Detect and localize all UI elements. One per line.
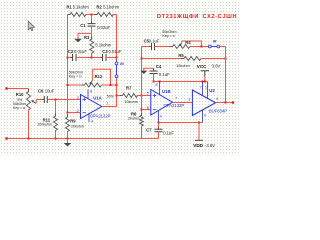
wire C4 bottom lead (153, 74, 155, 82)
junction right vertical at output (225, 102, 227, 104)
svg-text:5.1kohm: 5.1kohm (73, 5, 89, 10)
pin 8 stub U1A (87, 90, 89, 99)
junction VCC rail at VCC symbol (204, 81, 206, 83)
svg-text:20kohm: 20kohm (71, 125, 84, 129)
svg-text:C6: C6 (38, 89, 44, 94)
junction R3 bottom at C2C3 mid (91, 57, 93, 59)
junction right leg at C3 row (116, 57, 118, 59)
svg-text:3: 3 (77, 96, 79, 100)
wire R10 wiper to C6 (36, 99, 44, 101)
wire right leg down to IN port (116, 58, 118, 60)
svg-text:50%: 50% (107, 95, 115, 99)
svg-text:0.02uF: 0.02uF (97, 25, 110, 30)
svg-text:12kohm: 12kohm (176, 64, 190, 68)
svg-text:0.1uF: 0.1uF (159, 72, 170, 77)
wire R10 wiper stub (35, 100, 37, 104)
resistor R6 (140, 113, 144, 129)
svg-text:5.1kohm: 5.1kohm (95, 43, 111, 48)
capacitor C6 (44, 96, 47, 103)
wire rail from feedback vertical (142, 58, 185, 60)
wire C2 to mid junction (76, 57, 103, 59)
wire twin-T left leg vertical (67, 15, 69, 113)
resistor R9 bottom lead (67, 132, 69, 139)
wire right vertical lower (225, 59, 227, 103)
svg-text:4: 4 (160, 114, 162, 118)
svg-text:0.01uF: 0.01uF (74, 49, 87, 54)
node left input end (5, 87, 7, 89)
pin 4 stub U1A (88, 113, 90, 122)
junction output node at R7 row (116, 95, 118, 97)
svg-text:4: 4 (204, 114, 206, 118)
svg-text:0.01uF: 0.01uF (109, 49, 122, 54)
wire negative supply rail (159, 122, 203, 124)
svg-text:7: 7 (200, 85, 202, 89)
resistor R5 (182, 57, 204, 61)
junction feedback vertical at rail (141, 58, 143, 60)
ground arrow at C1 node (74, 39, 82, 42)
pin 7 stub U2 (202, 82, 204, 96)
wire connector to right vertical (220, 46, 226, 48)
wire twin-T right leg vertical (116, 15, 118, 58)
junction VCC rail at U2 pin7 (202, 81, 204, 83)
capacitor C4 (150, 71, 158, 74)
wire C7 bottom lead (158, 132, 160, 139)
wire left input to R10 top (7, 88, 29, 90)
svg-text:VDD: VDD (193, 143, 203, 148)
junction V- rail at C7 (158, 122, 160, 124)
svg-text:R9: R9 (70, 119, 76, 124)
wire R4 wiper loop (182, 41, 202, 47)
svg-text:10kohm: 10kohm (124, 100, 138, 104)
resistor R1 (68, 13, 89, 17)
resistor R2 (95, 13, 117, 17)
svg-text:DT231ЖЩФИ CX2-CJШН: DT231ЖЩФИ CX2-CJШН (157, 14, 237, 20)
junction R12 wiper tie (110, 84, 112, 86)
wire C6 to U1A pin3 (47, 99, 80, 101)
svg-text:OPA2132P: OPA2132P (90, 114, 111, 119)
svg-text:C7: C7 (146, 127, 152, 132)
junction ground rail at R10 (28, 138, 30, 140)
resistor R6 bottom lead (141, 126, 143, 139)
svg-text:R10: R10 (16, 92, 24, 97)
wire ground stub (67, 139, 69, 144)
wire U1A pin2 from left leg (68, 112, 81, 114)
minus sign U1A inverting input (83, 112, 87, 114)
junction R4 wiper tie (200, 46, 202, 48)
ground arrow at C4 (140, 71, 147, 74)
svg-text:7: 7 (175, 97, 177, 101)
svg-text:3: 3 (188, 97, 190, 101)
junction ground rail at R11 (55, 138, 57, 140)
resistor R7 (120, 94, 140, 98)
wire C5 corner horizontal (142, 46, 150, 48)
svg-text:1: 1 (205, 85, 207, 89)
power symbol VCC (201, 71, 209, 77)
junction output node at R12 wire (116, 84, 118, 86)
svg-text:-3.6V: -3.6V (205, 143, 215, 148)
junction twin-T left leg at R12 wire (67, 84, 69, 86)
pin 4 stub U2 (202, 109, 204, 122)
plus sign U1B noninverting input (153, 94, 157, 98)
plus sign U1A noninverting input (83, 97, 87, 101)
junction feedback vertical at R7 (141, 95, 143, 97)
junction VCC rail at U1B pin8 (159, 81, 161, 83)
capacitor C2 (73, 54, 77, 61)
wire right vertical upper (225, 47, 227, 59)
svg-text:4: 4 (91, 120, 93, 124)
wire U1B output to U2 (173, 102, 193, 104)
wire R3 bottom lead (91, 53, 93, 58)
svg-text:R5: R5 (178, 53, 184, 58)
potentiometer R4 wiper arrow (180, 43, 182, 45)
potentiometer R10 body (27, 89, 31, 112)
wire C7 top lead (158, 123, 160, 130)
wire between IN connectors (116, 65, 118, 75)
wire left leg to R12 (68, 84, 85, 86)
svg-text:10uF: 10uF (45, 89, 55, 94)
wire feedback vertical upper (141, 47, 143, 96)
wire R7 to feedback vertical (138, 95, 142, 97)
svg-text:100kohm: 100kohm (37, 123, 52, 127)
wire top rail left segment (68, 14, 71, 16)
svg-text:0.1uF: 0.1uF (149, 39, 160, 44)
wire R12 wiper loop (93, 69, 111, 85)
wire R5 to right vertical (201, 58, 226, 60)
buffer U2 BUF634P (192, 90, 215, 116)
wire between right connectors (212, 46, 217, 48)
on-page connector right pair left circle (208, 45, 211, 48)
resistor R9 top lead (67, 113, 69, 118)
resistor R9 (66, 115, 70, 135)
svg-text:IN: IN (120, 62, 124, 66)
svg-text:C3: C3 (102, 49, 108, 54)
wire C1 bottom lead (91, 26, 93, 33)
svg-text:U2: U2 (209, 88, 215, 93)
potentiometer R12 body (82, 83, 104, 87)
potentiometer R12 wiper arrow (90, 80, 92, 83)
minus sign U1B inverting input (153, 109, 157, 111)
wire VCC symbol to rail (204, 77, 206, 82)
wire C1 node to ground (78, 33, 92, 38)
wire R10 top lead (28, 89, 30, 92)
capacitor C3 (103, 54, 107, 61)
svg-text:C4: C4 (156, 64, 162, 69)
op-amp U1A (81, 95, 102, 119)
resistor R3 (90, 37, 94, 56)
potentiometer R4 body (170, 45, 193, 49)
resistor R11 (54, 114, 58, 134)
wire output node to R7 (117, 95, 123, 97)
wire C3 to right leg (106, 57, 117, 59)
svg-text:IR: IR (213, 40, 217, 44)
svg-text:R2: R2 (96, 4, 102, 9)
resistor R11 top lead (55, 100, 57, 117)
svg-text:Key = c: Key = c (162, 34, 175, 38)
svg-text:OPA2132P: OPA2132P (164, 103, 185, 108)
wire R10 bottom lead (28, 110, 30, 139)
svg-text:5: 5 (147, 91, 149, 95)
wire R2 to right corner (114, 14, 117, 16)
junction top mid node (91, 14, 93, 16)
capacitor C7 (155, 129, 163, 132)
svg-text:8: 8 (90, 90, 92, 94)
wire VCC rail (154, 81, 208, 83)
on-page connector lower circle (115, 75, 118, 78)
pin 8 stub U1B (159, 82, 161, 96)
mouse cursor (28, 21, 34, 30)
wire C1 top lead (91, 15, 93, 24)
svg-text:Key = a: Key = a (13, 106, 25, 110)
wire C4 ground corner (144, 68, 154, 71)
potentiometer R10 wiper arrow (33, 101, 37, 103)
wire VDD drop (198, 123, 200, 141)
svg-text:U1B: U1B (162, 89, 171, 94)
junction V- rail at VDD drop (198, 122, 200, 124)
pin 1 stub U2 (207, 82, 209, 99)
capacitor C1 (88, 24, 96, 27)
junction feedback vertical at pin6 row (141, 109, 143, 111)
wire U1B pin6 (142, 109, 151, 111)
wire ground rail (7, 138, 159, 140)
svg-text:0.1uF: 0.1uF (163, 131, 174, 136)
wire left leg to C2 (68, 57, 73, 59)
svg-text:Key = b: Key = b (69, 75, 82, 79)
power symbol VDD (195, 139, 203, 141)
junction twin-T left leg at C2 row (67, 57, 69, 59)
svg-text:C1: C1 (80, 23, 86, 28)
pin 4 stub U1B (158, 111, 160, 123)
svg-text:BUF634P: BUF634P (209, 108, 227, 113)
junction R11 top (55, 99, 57, 101)
wire U1A output (102, 106, 117, 108)
svg-text:VCC: VCC (197, 64, 207, 69)
wire U2 output (216, 102, 233, 104)
svg-text:R3: R3 (84, 35, 90, 40)
wire R3 top lead (91, 33, 93, 39)
junction twin-T left leg at pin2 (67, 112, 69, 114)
node output stub end (232, 101, 234, 103)
ground arrow at bottom rail (64, 143, 72, 146)
svg-text:8: 8 (156, 83, 158, 87)
wire R12 to output node (102, 84, 117, 86)
svg-text:1: 1 (107, 101, 109, 105)
op-amp U1B (151, 90, 173, 116)
on-page connector IN upper circle (115, 62, 118, 65)
svg-text:3.6V: 3.6V (212, 64, 221, 69)
wire R1 to junction (86, 14, 97, 16)
junction ground rail at R9 (67, 138, 69, 140)
svg-text:5.1kohm: 5.1kohm (103, 5, 119, 10)
wire feedback vertical mid (141, 96, 143, 116)
wire lower connector down to U1A output node (116, 78, 118, 107)
junction VCC rail at C4 (153, 81, 155, 83)
wire C5 to R4 (155, 46, 173, 48)
wire R4 to port (190, 46, 208, 48)
capacitor C5 (152, 43, 155, 50)
svg-text:R7: R7 (126, 85, 132, 90)
on-page connector right pair right circle (217, 45, 220, 48)
node ground rail left end (5, 137, 7, 139)
svg-text:6: 6 (216, 97, 218, 101)
svg-text:R1: R1 (66, 4, 72, 9)
wire IN port blue lead (116, 60, 118, 62)
svg-text:R12: R12 (95, 74, 103, 79)
junction right vertical at rail (225, 58, 227, 60)
svg-text:R4: R4 (185, 40, 191, 45)
resistor R11 bottom lead (55, 131, 57, 139)
svg-text:C2: C2 (68, 49, 74, 54)
svg-text:6: 6 (147, 106, 149, 110)
svg-text:2kohm: 2kohm (128, 117, 139, 121)
svg-text:U1A: U1A (93, 96, 102, 101)
wire to U1B pin5 (142, 95, 151, 97)
